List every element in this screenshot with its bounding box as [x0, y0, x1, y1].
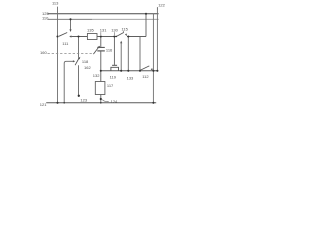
svg-text:118: 118 [82, 59, 89, 64]
svg-text:135: 135 [87, 28, 94, 33]
wire vertical from node 131 through capacitor 116 [100, 37, 102, 48]
svg-text:131: 131 [100, 28, 107, 33]
node 124 below box 117 [100, 98, 102, 100]
wire vertical gate from node 130 [113, 37, 115, 65]
actuator arrow from rail 110 to switch 111 [70, 19, 72, 29]
svg-text:121: 121 [40, 102, 47, 107]
node switch 112 contact on right rail [152, 70, 154, 72]
actuator elbow arrow from bottom rail to switch 118 [64, 61, 73, 103]
switch S111 blade [59, 33, 67, 37]
switch S111 contact arrowhead [69, 35, 71, 37]
wire bend up to rail 125 [145, 14, 147, 37]
resistor R117 (box) [95, 82, 105, 95]
label 130 tick [113, 32, 115, 35]
node line 132 / capacitor branch [100, 70, 102, 72]
wire node 123 drop [78, 65, 80, 96]
switch S112 blade [140, 66, 149, 71]
svg-text:162: 162 [84, 65, 91, 70]
svg-text:113: 113 [52, 0, 59, 5]
resistor R135 (box) [87, 34, 97, 40]
capacitor C116 top plate [97, 46, 105, 48]
wire control line 132 (mid horizontal) [101, 70, 158, 72]
dashed leader from label 160 [48, 53, 92, 55]
node line 132 / node 133 vertical [127, 70, 129, 72]
wire rail 125 (top horizontal) [48, 13, 159, 15]
node 118 branch [77, 35, 79, 37]
wire capacitor to line 132 [100, 51, 102, 71]
node bottom rail / elbow foot [63, 102, 65, 104]
switch S115 contact arrowhead [125, 34, 127, 37]
wire bottom rail 121 [46, 102, 156, 104]
wire right rail A [152, 14, 154, 103]
switch S118 blade [75, 58, 79, 65]
node bottom rail / right rail A [152, 102, 154, 104]
svg-text:130: 130 [111, 28, 118, 33]
svg-text:111: 111 [62, 41, 69, 46]
reference numeral labels [40, 0, 166, 106]
svg-text:112: 112 [142, 74, 149, 79]
wire resistor to switch 115 [97, 36, 116, 38]
wire vertical 113 (from top label to bottom rail) [57, 7, 59, 103]
node switch 115 pivot [116, 36, 117, 37]
svg-text:117: 117 [107, 83, 114, 88]
node 133 switch 115 contact [127, 35, 129, 37]
node line 132 / actuator 115 [120, 70, 122, 72]
node wire to rail 125 junction [145, 13, 147, 15]
svg-text:133: 133 [127, 75, 134, 80]
transistor Q119 channel [111, 67, 119, 71]
wire rail 110 (second horizontal, left part) [48, 18, 92, 20]
svg-text:115: 115 [122, 26, 129, 31]
transistor Q119 gate bar [112, 64, 117, 66]
capacitor C116 bottom plate [97, 50, 105, 52]
switch S115 blade [116, 32, 124, 36]
label 122 tick [156, 7, 158, 9]
svg-text:116: 116 [106, 48, 113, 53]
node 130 [113, 35, 115, 37]
switch S118 blade arrowhead [78, 57, 80, 60]
svg-text:132: 132 [93, 73, 100, 78]
wire node 124 to bottom rail [100, 99, 102, 103]
wire switch 115 output to bend-up [127, 36, 146, 38]
actuator arrow for switch 115 from line 132 [120, 43, 122, 71]
node 131 [100, 35, 102, 37]
svg-text:124: 124 [111, 99, 118, 104]
wire switch 111 output [71, 36, 87, 38]
node bottom rail / box 117 column [100, 102, 102, 104]
switch S112 contact arrowhead [151, 68, 153, 70]
node bottom rail / vertical 113 [56, 102, 58, 104]
variable capacitor arrow through C116 [93, 47, 99, 54]
junction node dots [56, 13, 158, 104]
wire right corner drop 122 [156, 7, 158, 71]
wire vertical node 133 to line 132 [127, 37, 129, 71]
node switch 112 pivot [139, 70, 141, 72]
wire box 117 to node 124 [100, 95, 102, 100]
svg-text:123: 123 [80, 97, 87, 102]
wire rail 110 (second horizontal, right part) [92, 18, 159, 20]
svg-text:119: 119 [110, 74, 117, 79]
label 124 leader squiggle [102, 100, 108, 102]
label 131 tick [100, 32, 102, 35]
wire line 132 to box 117 [100, 71, 102, 82]
wire switch 112 pivot feed [139, 37, 141, 71]
switch S115 tick from label [122, 31, 125, 32]
node on rail 110 above switch 111 [69, 18, 71, 20]
svg-text:160: 160 [40, 50, 47, 55]
svg-text:122: 122 [158, 3, 165, 8]
node 123 terminal [78, 95, 80, 97]
wire branch 118 (vertical from switch 111 output) [78, 37, 80, 58]
node switch 111 left terminal [56, 35, 58, 37]
node line 132 end at corner drop [156, 70, 158, 72]
svg-text:110: 110 [42, 16, 49, 21]
